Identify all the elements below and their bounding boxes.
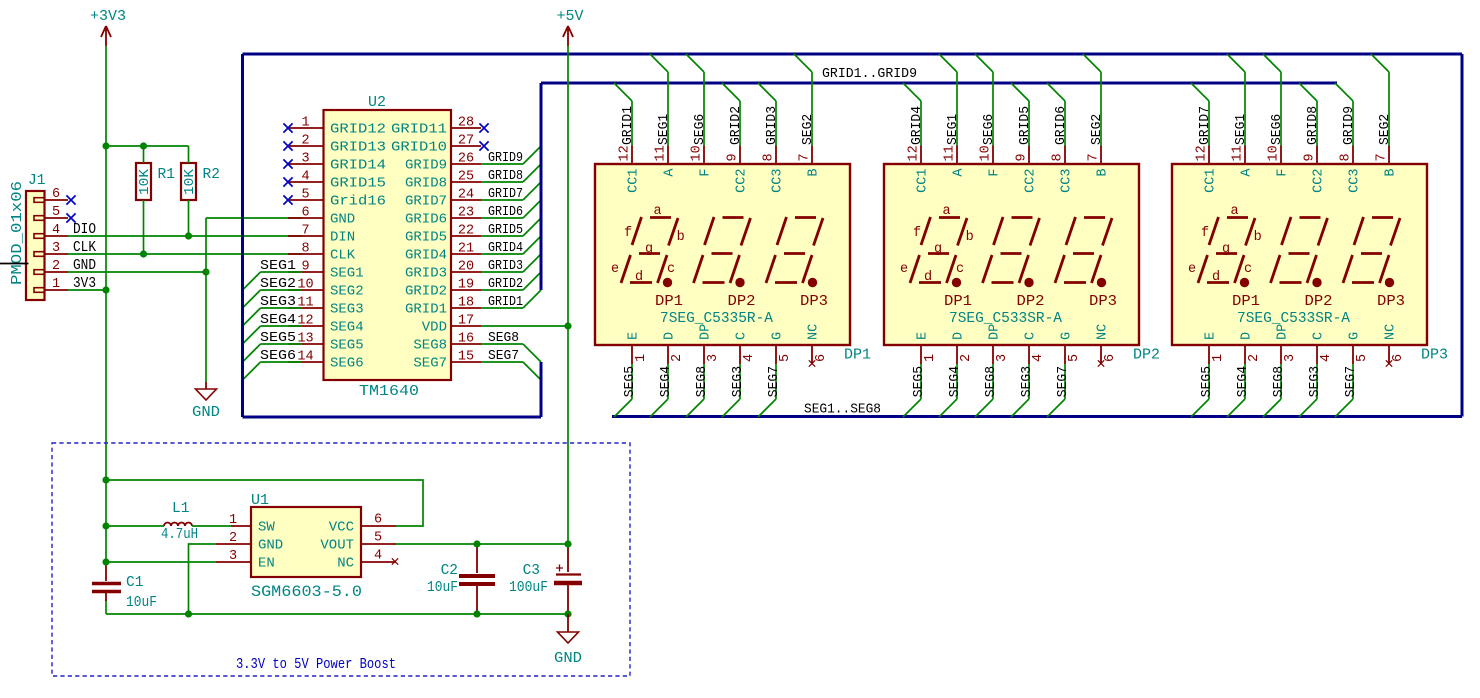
- svg-text:8: 8: [1051, 153, 1066, 161]
- svg-text:U2: U2: [368, 94, 386, 111]
- display DP3 segment letters: [1188, 204, 1262, 285]
- svg-text:SW: SW: [258, 520, 275, 536]
- U2 pin 16 SEG8: [413, 332, 481, 354]
- svg-text:A: A: [1240, 168, 1255, 177]
- svg-text:2: 2: [301, 134, 309, 149]
- no-connect U2 pin 1: [283, 123, 292, 132]
- J1 pin 3 CLK: [34, 240, 96, 256]
- svg-text:D: D: [663, 332, 678, 340]
- IC U1 SGM6603-5.0 body: [251, 492, 362, 601]
- no-connect U2 pin 2: [283, 141, 292, 150]
- svg-text:3: 3: [52, 241, 60, 256]
- svg-text:B: B: [1096, 169, 1111, 177]
- svg-text:DP2: DP2: [1305, 294, 1333, 310]
- bus SEG left vertical: [241, 54, 244, 417]
- svg-text:E: E: [1204, 332, 1219, 340]
- svg-text:+3V3: +3V3: [90, 8, 126, 25]
- J1 pin 2 GND: [34, 258, 96, 274]
- svg-text:C: C: [1312, 332, 1327, 340]
- svg-text:DP1: DP1: [844, 347, 871, 364]
- U2 pin 4 GRID15: [288, 170, 386, 192]
- svg-text:SEG7: SEG7: [1056, 366, 1071, 397]
- display DP2 pin 9 GRID5: [1011, 83, 1039, 193]
- junction VOUT C2: [473, 540, 480, 547]
- display DP3 pin 3 SEG8: [1263, 324, 1298, 417]
- svg-text:GRID12: GRID12: [330, 122, 386, 138]
- svg-text:1: 1: [52, 277, 60, 292]
- wire L1 to U1 SW: [192, 525, 231, 527]
- svg-text:GRID11: GRID11: [391, 122, 447, 138]
- display DP1 pin 7 SEG2: [794, 54, 822, 177]
- junction GND rail C3: [564, 610, 571, 617]
- svg-text:SEG4: SEG4: [330, 320, 364, 336]
- wire 3V3 J1 to +3V3: [68, 289, 106, 291]
- display DP1 pin 1 SEG5: [614, 332, 649, 417]
- junction GND rail 1: [185, 610, 192, 617]
- svg-text:100uF: 100uF: [509, 580, 548, 596]
- svg-text:GRID4: GRID4: [488, 240, 523, 256]
- wire +5V vertical: [567, 46, 569, 544]
- svg-text:CC1: CC1: [1204, 169, 1219, 193]
- no-connect U2 pin 4: [283, 177, 292, 186]
- svg-text:GRID1..GRID9: GRID1..GRID9: [822, 66, 917, 82]
- wire U2 SEG2 with bus entry: [243, 276, 303, 308]
- no-connect display DP1 pin 6: [809, 360, 815, 366]
- U2 pin 24 GRID7: [405, 188, 481, 210]
- svg-text:5: 5: [301, 188, 309, 203]
- svg-text:SEG8: SEG8: [984, 366, 999, 397]
- bus SEG loop top: [243, 53, 1463, 56]
- display DP1 digit 1 segments: [621, 217, 678, 287]
- J1 pin 6: [34, 187, 68, 202]
- svg-text:g: g: [934, 242, 942, 257]
- svg-text:SEG7: SEG7: [413, 356, 447, 372]
- junction VOUT C3: [564, 540, 571, 547]
- svg-text:VCC: VCC: [329, 520, 354, 536]
- U2 pin 27 GRID10: [391, 134, 481, 156]
- svg-text:NC: NC: [1384, 324, 1399, 340]
- svg-text:D: D: [952, 332, 967, 340]
- svg-text:CC3: CC3: [1348, 169, 1363, 193]
- svg-text:SEG8: SEG8: [488, 330, 519, 346]
- svg-text:3.3V to 5V Power Boost: 3.3V to 5V Power Boost: [236, 657, 396, 673]
- svg-text:26: 26: [458, 152, 474, 167]
- svg-text:DP: DP: [699, 324, 714, 340]
- svg-text:F: F: [1276, 169, 1291, 177]
- wire U2 SEG8 with bus entry: [481, 330, 541, 362]
- svg-text:GRID9: GRID9: [488, 150, 523, 166]
- junction +3V3/branch: [102, 142, 109, 149]
- svg-text:21: 21: [458, 242, 474, 257]
- svg-text:8: 8: [301, 242, 309, 257]
- svg-text:SEG6: SEG6: [1270, 114, 1285, 145]
- svg-text:11: 11: [654, 145, 669, 161]
- display DP1 digit 3 segments: [766, 217, 823, 287]
- svg-text:GRID15: GRID15: [330, 176, 386, 192]
- svg-text:c: c: [956, 262, 964, 277]
- svg-text:GRID1: GRID1: [405, 302, 447, 318]
- no-connect J1 pin 5: [66, 213, 75, 222]
- svg-text:7SEG_C533SR-A: 7SEG_C533SR-A: [949, 311, 1062, 327]
- svg-text:R2: R2: [203, 167, 220, 183]
- svg-text:SEG1..SEG8: SEG1..SEG8: [804, 402, 881, 418]
- svg-text:7: 7: [798, 153, 813, 161]
- wire U2 GRID7 with bus entry: [481, 182, 541, 202]
- svg-text:GRID1: GRID1: [621, 106, 636, 145]
- junction boost L1: [102, 522, 109, 529]
- svg-text:SEG1: SEG1: [946, 114, 961, 145]
- svg-text:7: 7: [301, 224, 309, 239]
- svg-text:GRID3: GRID3: [765, 106, 780, 145]
- dashed box power boost: [52, 443, 630, 676]
- svg-text:SEG8: SEG8: [413, 338, 447, 354]
- svg-text:PMOD_01x06: PMOD_01x06: [10, 181, 26, 285]
- svg-text:7SEG_C5335R-A: 7SEG_C5335R-A: [660, 311, 773, 327]
- wire GND vertical: [205, 218, 207, 382]
- display DP2 7SEG body: [884, 164, 1160, 364]
- svg-text:J1: J1: [28, 173, 45, 189]
- svg-text:e: e: [1188, 262, 1196, 277]
- svg-text:27: 27: [458, 134, 474, 149]
- svg-text:GND: GND: [258, 538, 283, 554]
- svg-text:R1: R1: [158, 167, 175, 183]
- svg-text:11: 11: [1231, 145, 1246, 161]
- svg-text:12: 12: [618, 145, 633, 161]
- svg-text:7SEG_C533SR-A: 7SEG_C533SR-A: [1237, 311, 1350, 327]
- svg-text:+5V: +5V: [556, 8, 583, 25]
- svg-text:C1: C1: [126, 575, 143, 591]
- U2 pin 9 SEG1: [288, 260, 364, 282]
- IC U2 TM1640 body: [324, 94, 452, 400]
- wire U2 GRID2 with bus entry: [481, 272, 541, 292]
- svg-text:SEG1: SEG1: [260, 258, 296, 274]
- svg-text:1: 1: [1211, 354, 1226, 362]
- svg-text:GRID1: GRID1: [488, 294, 523, 310]
- svg-text:SEG7: SEG7: [767, 366, 782, 397]
- svg-text:SEG4: SEG4: [260, 312, 296, 328]
- svg-text:SEG7: SEG7: [488, 348, 519, 364]
- svg-text:GRID8: GRID8: [405, 176, 447, 192]
- svg-text:GRID9: GRID9: [1342, 106, 1357, 145]
- svg-text:SEG8: SEG8: [1272, 366, 1287, 397]
- wire U2 GRID4 with bus entry: [481, 236, 541, 256]
- svg-text:SEG3: SEG3: [330, 302, 364, 318]
- svg-text:e: e: [900, 262, 908, 277]
- U2 pin 19 GRID2: [405, 278, 481, 300]
- U2 pin 17 VDD: [422, 314, 481, 336]
- display DP2 pin 6 NC: [1096, 324, 1118, 364]
- svg-text:C: C: [735, 332, 750, 340]
- svg-text:GRID5: GRID5: [1018, 106, 1033, 145]
- display DP2 digit 2 segments: [983, 217, 1040, 287]
- svg-text:f: f: [1201, 226, 1209, 241]
- junction R1/CLK: [140, 250, 147, 257]
- wire bottom rail: [106, 613, 568, 615]
- svg-text:9: 9: [726, 153, 741, 161]
- display DP2 pin 11 SEG1: [939, 54, 967, 177]
- U2 pin 18 GRID1: [405, 296, 481, 318]
- svg-text:NC: NC: [807, 324, 822, 340]
- display DP3 digit 1 segments: [1198, 217, 1255, 287]
- svg-text:DP3: DP3: [1089, 294, 1117, 310]
- display DP2 digit 3 segments: [1055, 217, 1112, 287]
- svg-text:18: 18: [458, 296, 474, 311]
- display DP1 pin 12 GRID1: [614, 83, 642, 193]
- display DP2 pin 2 SEG4: [939, 332, 974, 417]
- svg-text:24: 24: [458, 188, 474, 203]
- U1 pin 3 EN: [216, 549, 275, 572]
- svg-text:L1: L1: [172, 501, 189, 517]
- svg-text:C2: C2: [441, 563, 458, 579]
- wire VOUT to +5V: [396, 543, 568, 545]
- ground GND (U2 area): [192, 382, 220, 421]
- svg-text:4.7uH: 4.7uH: [161, 527, 198, 543]
- display DP3 pin 12 GRID7: [1191, 83, 1219, 193]
- svg-text:6: 6: [1103, 354, 1118, 362]
- sheet edge line: [0, 263, 29, 265]
- display DP1 pin 5 SEG7: [758, 332, 793, 417]
- svg-text:DP1: DP1: [944, 294, 972, 310]
- svg-text:SEG3: SEG3: [1308, 366, 1323, 397]
- svg-text:SGM6603-5.0: SGM6603-5.0: [251, 583, 362, 601]
- connector J1: [10, 173, 45, 300]
- svg-text:SEG6: SEG6: [330, 356, 364, 372]
- svg-text:B: B: [1384, 169, 1399, 177]
- bus SEG bottom right SEG1..SEG8: [612, 402, 1462, 418]
- svg-text:CC1: CC1: [627, 169, 642, 193]
- svg-text:Grid16: Grid16: [330, 194, 386, 210]
- U2 pin 11 SEG3: [288, 296, 364, 318]
- svg-text:1: 1: [634, 354, 649, 362]
- svg-text:GRID6: GRID6: [488, 204, 523, 220]
- wire R1/R2 supply branch: [106, 145, 189, 147]
- svg-text:4: 4: [374, 549, 382, 564]
- svg-text:6: 6: [814, 354, 829, 362]
- svg-text:GRID10: GRID10: [391, 140, 447, 156]
- no-connect J1 pin 6: [66, 195, 75, 204]
- svg-text:GRID4: GRID4: [910, 106, 925, 145]
- wire U2 GRID9 with bus entry: [481, 146, 541, 166]
- svg-text:5: 5: [52, 205, 60, 220]
- svg-text:DP: DP: [1276, 324, 1291, 340]
- svg-text:6: 6: [52, 187, 60, 202]
- svg-text:2: 2: [1247, 354, 1262, 362]
- svg-text:G: G: [771, 332, 786, 340]
- svg-text:15: 15: [458, 350, 474, 365]
- display DP3 pin 11 SEG1: [1227, 54, 1255, 177]
- display DP2 pin 1 SEG5: [903, 332, 938, 417]
- svg-text:GRID7: GRID7: [1198, 106, 1213, 145]
- junction R2/DIO: [185, 232, 192, 239]
- no-connect display DP2 pin 6: [1098, 360, 1104, 366]
- svg-text:CC2: CC2: [735, 169, 750, 193]
- svg-text:10uF: 10uF: [427, 580, 458, 596]
- svg-text:5: 5: [1067, 354, 1082, 362]
- svg-text:E: E: [627, 332, 642, 340]
- svg-text:TM1640: TM1640: [359, 383, 419, 400]
- svg-text:GRID8: GRID8: [488, 168, 523, 184]
- display DP3 pin 1 SEG5: [1191, 332, 1226, 417]
- svg-text:GRID14: GRID14: [330, 158, 386, 174]
- wire CLK J1 to U2 CLK: [68, 253, 302, 255]
- svg-text:12: 12: [907, 145, 922, 161]
- wire EN: [106, 561, 216, 563]
- display DP2 pin 4 SEG3: [1011, 332, 1046, 417]
- U2 pin 23 GRID6: [405, 206, 481, 228]
- svg-text:SEG6: SEG6: [982, 114, 997, 145]
- wire U1 GND down: [189, 544, 217, 614]
- display DP2 pin 12 GRID4: [903, 83, 931, 193]
- svg-text:6: 6: [374, 513, 382, 528]
- svg-text:NC: NC: [337, 556, 354, 572]
- svg-text:GRID5: GRID5: [488, 222, 523, 238]
- svg-text:SEG2: SEG2: [330, 284, 364, 300]
- display DP3 7SEG body: [1172, 164, 1448, 364]
- svg-text:17: 17: [458, 314, 474, 329]
- U2 pin 20 GRID3: [405, 260, 481, 282]
- svg-text:GRID3: GRID3: [488, 258, 523, 274]
- svg-text:16: 16: [458, 332, 474, 347]
- svg-text:b: b: [966, 230, 974, 245]
- svg-text:2: 2: [229, 531, 237, 546]
- display DP1 DP labels: [655, 294, 828, 310]
- svg-text:CC2: CC2: [1312, 169, 1327, 193]
- svg-text:U1: U1: [251, 492, 269, 509]
- no-connect U2 pin 28: [479, 123, 488, 132]
- U2 pin 13 SEG5: [288, 332, 364, 354]
- capacitor C2 10uF: [427, 544, 495, 614]
- svg-text:e: e: [611, 262, 619, 277]
- svg-text:GRID7: GRID7: [405, 194, 447, 210]
- svg-text:A: A: [663, 168, 678, 177]
- U2 pin 26 GRID9: [405, 152, 481, 174]
- wire U2 SEG3 with bus entry: [243, 294, 303, 326]
- display DP1 pin 3 SEG8: [686, 324, 721, 417]
- svg-text:SEG4: SEG4: [948, 366, 963, 397]
- svg-text:25: 25: [458, 170, 474, 185]
- svg-text:3: 3: [706, 354, 721, 362]
- svg-text:4: 4: [1031, 354, 1046, 362]
- wire U2 SEG7 with bus entry: [481, 348, 541, 380]
- bus SEG right vertical: [1461, 54, 1464, 417]
- svg-text:SEG5: SEG5: [912, 366, 927, 397]
- svg-text:GRID2: GRID2: [729, 106, 744, 145]
- svg-text:4: 4: [301, 170, 309, 185]
- svg-text:10K: 10K: [183, 168, 198, 195]
- svg-text:c: c: [667, 262, 675, 277]
- svg-text:CLK: CLK: [330, 248, 356, 264]
- svg-text:d: d: [635, 270, 643, 285]
- svg-text:GRID8: GRID8: [1306, 106, 1321, 145]
- svg-text:GND: GND: [330, 212, 355, 228]
- svg-text:GRID13: GRID13: [330, 140, 386, 156]
- display DP2 pin 10 SEG6: [975, 54, 1003, 177]
- display DP1 pin 9 GRID2: [722, 83, 750, 193]
- svg-text:g: g: [645, 242, 653, 257]
- junction branch/R1: [140, 142, 147, 149]
- svg-text:4: 4: [742, 354, 757, 362]
- wire U2 SEG4 with bus entry: [243, 312, 303, 344]
- svg-text:a: a: [653, 204, 661, 219]
- svg-text:3: 3: [995, 354, 1010, 362]
- U1 pin 1 SW: [229, 513, 275, 536]
- svg-text:GND: GND: [554, 651, 582, 667]
- svg-text:7: 7: [1375, 153, 1390, 161]
- U2 pin 1 GRID12: [288, 116, 386, 138]
- U2 pin 8 CLK: [288, 242, 356, 264]
- wire U2 GRID1 with bus entry: [481, 290, 541, 310]
- no-connect U2 pin 5: [283, 195, 292, 204]
- no-connect display DP3 pin 6: [1386, 360, 1392, 366]
- svg-text:DP1: DP1: [1232, 294, 1260, 310]
- display DP2 pin 5 SEG7: [1047, 332, 1082, 417]
- svg-text:1: 1: [923, 354, 938, 362]
- display DP3 pin 7 SEG2: [1371, 54, 1399, 177]
- junction VDD/+5V: [564, 322, 571, 329]
- svg-text:10uF: 10uF: [126, 595, 157, 611]
- wire VCC loop: [106, 480, 423, 526]
- display DP3 digit 3 segments: [1343, 217, 1400, 287]
- svg-text:5: 5: [1355, 354, 1370, 362]
- ground GND (boost): [554, 614, 582, 667]
- bus SEG bottom left: [243, 416, 542, 419]
- U2 pin 7 DIN: [288, 224, 355, 246]
- U2 pin 15 SEG7: [413, 350, 481, 372]
- junction boost EN: [102, 558, 109, 565]
- svg-text:SEG5: SEG5: [260, 330, 296, 346]
- svg-text:5: 5: [778, 354, 793, 362]
- display DP1 pin 8 GRID3: [758, 83, 786, 193]
- svg-text:E: E: [916, 332, 931, 340]
- svg-text:GRID6: GRID6: [1054, 106, 1069, 145]
- svg-text:2: 2: [52, 259, 60, 274]
- svg-text:DP3: DP3: [1377, 294, 1405, 310]
- svg-text:SEG1: SEG1: [330, 266, 364, 282]
- power symbol +3V3: [90, 8, 126, 46]
- J1 pin 1 3V3: [34, 276, 96, 292]
- svg-text:G: G: [1348, 332, 1363, 340]
- svg-text:SEG6: SEG6: [260, 348, 296, 364]
- U2 pin 25 GRID8: [405, 170, 481, 192]
- svg-text:b: b: [677, 230, 685, 245]
- wire GND to U2 pin6: [206, 217, 302, 219]
- display DP2 DP labels: [944, 294, 1117, 310]
- display DP1 pin 2 SEG4: [650, 332, 685, 417]
- svg-text:19: 19: [458, 278, 474, 293]
- svg-text:10K: 10K: [138, 168, 153, 195]
- wire GND J1 horizontal: [68, 271, 206, 273]
- U1 pin 6 VCC: [329, 513, 396, 536]
- display DP3 pin 10 SEG6: [1263, 54, 1291, 177]
- U2 pin 6 GND: [288, 206, 355, 228]
- display DP1 pin 4 SEG3: [722, 332, 757, 417]
- svg-text:A: A: [952, 168, 967, 177]
- U1 pin 4 NC: [337, 549, 396, 572]
- svg-text:DP2: DP2: [728, 294, 756, 310]
- svg-text:22: 22: [458, 224, 474, 239]
- U2 pin 22 GRID5: [405, 224, 481, 246]
- wire R1 top: [143, 146, 145, 163]
- svg-text:SEG2: SEG2: [801, 114, 816, 145]
- svg-text:GRID6: GRID6: [405, 212, 447, 228]
- capacitor C1 10uF: [92, 562, 157, 611]
- display DP1 pin 11 SEG1: [650, 54, 678, 177]
- wire R2 top: [188, 146, 190, 163]
- junction GND rail C2: [473, 610, 480, 617]
- bus SEG mid vertical: [540, 362, 543, 417]
- svg-text:B: B: [807, 169, 822, 177]
- svg-text:f: f: [913, 226, 921, 241]
